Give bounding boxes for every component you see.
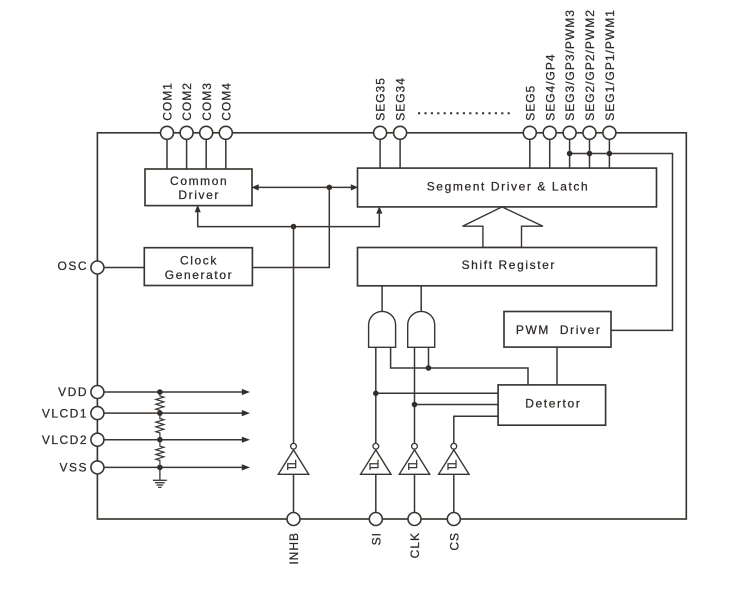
svg-text:COM1: COM1 — [161, 82, 175, 121]
svg-text:CLK: CLK — [408, 532, 422, 558]
pin SEG1/GP1/PWM1 — [603, 9, 617, 139]
pin SEG35 — [374, 77, 388, 139]
wire: SI branch to Detertor — [376, 392, 498, 394]
wire: CLK branch to Detertor — [415, 404, 499, 406]
wire: INHB buffer output up to control bus — [293, 227, 295, 444]
svg-text:SEG35: SEG35 — [374, 77, 388, 121]
AND gate G2 — [408, 311, 435, 347]
svg-text:INHB: INHB — [287, 532, 301, 565]
big block arrow from Shift Register to Segment Driver & Latch — [463, 207, 544, 248]
junction: resistor chain at VLCD1 — [157, 410, 163, 416]
wire: Shift Register to AND gate G1 — [381, 286, 383, 312]
wire: OSC pin to Clock Generator — [97, 267, 144, 269]
svg-text:VDD: VDD — [58, 385, 88, 399]
svg-text:CS: CS — [447, 532, 461, 551]
svg-text:PWM Driver: PWM Driver — [516, 323, 602, 337]
dotted line for omitted SEG pins — [418, 112, 514, 114]
AND gate G1 — [369, 311, 396, 347]
wire: CLK buffer to CLK pin — [414, 474, 416, 519]
wire: INHB buffer to INHB pin — [293, 474, 295, 519]
pin SI — [369, 513, 383, 546]
wire: Detertor output to AND gate right inputs — [391, 347, 528, 385]
pin SEG4/GP4 — [543, 53, 557, 139]
svg-text:Clock: Clock — [180, 254, 218, 268]
pin COM4 — [219, 82, 233, 139]
pin COM1 — [161, 82, 175, 139]
pin VDD — [58, 385, 104, 399]
pin SEG3/GP3/PWM3 — [563, 9, 577, 139]
svg-text:SI: SI — [369, 532, 383, 545]
wire: gate G2 right input — [428, 347, 430, 368]
wire: SEG34 pin to Segment Driver — [399, 135, 401, 168]
pin VSS — [59, 461, 103, 475]
wire: bidirectional bus between Common Driver and Segment Driver & Latch — [251, 184, 358, 190]
wire: COM4 pin to Common Driver — [225, 135, 227, 169]
pin SEG5 — [523, 85, 537, 140]
wire: SEG4 pin to Segment Driver — [549, 135, 551, 168]
svg-text:SEG34: SEG34 — [394, 77, 408, 121]
junction: SI branch — [373, 391, 379, 397]
junction: clock line joins bidirectional bus — [327, 185, 333, 191]
svg-text:SEG2/GP2/PWM2: SEG2/GP2/PWM2 — [583, 9, 597, 121]
svg-text:SEG1/GP1/PWM1: SEG1/GP1/PWM1 — [603, 9, 617, 121]
wire: COM1 pin to Common Driver — [166, 135, 168, 169]
junction: PWM feedback at SEG2 — [587, 151, 593, 157]
pin OSC — [57, 259, 103, 274]
svg-text:COM2: COM2 — [180, 82, 194, 121]
pin SEG34 — [394, 77, 408, 139]
svg-text:Common: Common — [170, 174, 228, 188]
pin COM3 — [200, 82, 214, 139]
wire: SEG5 pin to Segment Driver — [529, 135, 531, 168]
svg-text:OSC: OSC — [57, 259, 88, 273]
wire: COM2 pin to Common Driver — [186, 135, 188, 169]
buffer U3 (CLK Schmitt trigger) — [399, 443, 429, 474]
junction: PWM feedback at SEG3 — [567, 151, 573, 157]
svg-text:COM4: COM4 — [219, 82, 233, 121]
svg-text:COM3: COM3 — [200, 82, 214, 121]
buffer U1 (INHB Schmitt trigger) — [278, 443, 308, 474]
wire: VSS supply line with arrow — [97, 464, 250, 470]
wire: PWM feedback line to SEG1-SEG3 pins — [570, 154, 673, 331]
pin CLK — [408, 513, 422, 559]
wire: SEG3 pin to Segment Driver — [569, 135, 571, 168]
resistor R3 between VLCD2 and VSS — [156, 440, 164, 468]
junction: resistor chain at VDD — [157, 389, 163, 395]
wire: VDD supply line with arrow — [97, 389, 250, 395]
block: Segment Driver & Latch — [358, 168, 657, 207]
resistor R1 between VDD and VLCD1 — [156, 392, 164, 413]
svg-text:Detertor: Detertor — [525, 397, 581, 411]
wire: Clock Generator output to bus — [252, 187, 329, 267]
svg-text:Segment Driver & Latch: Segment Driver & Latch — [427, 179, 590, 193]
junction: resistor chain at VSS — [157, 465, 163, 471]
junction: gate G2 right input on detertor line — [426, 365, 432, 371]
svg-text:VLCD2: VLCD2 — [42, 433, 88, 447]
wire: VLCD1 supply line with arrow — [97, 410, 250, 416]
pin INHB — [287, 513, 301, 565]
junction: CLK branch — [412, 402, 418, 408]
block: Common Driver — [145, 169, 252, 206]
pin CS — [447, 513, 461, 551]
block: Clock Generator — [144, 248, 252, 286]
svg-text:VSS: VSS — [59, 461, 88, 475]
chip outline border — [97, 133, 686, 519]
pin COM2 — [180, 82, 194, 139]
wire: VLCD2 supply line with arrow — [97, 437, 250, 443]
resistor R2 between VLCD1 and VLCD2 — [156, 413, 164, 440]
junction: PWM feedback at SEG1 — [607, 151, 613, 157]
ground symbol below VSS — [153, 467, 167, 487]
svg-text:Generator: Generator — [165, 268, 233, 282]
pin SEG2/GP2/PWM2 — [583, 9, 597, 139]
buffer U4 (CS Schmitt trigger) — [439, 443, 469, 474]
svg-text:Driver: Driver — [178, 188, 220, 202]
wire: CS buffer to CS pin — [453, 474, 455, 519]
block: PWM Driver — [504, 312, 611, 348]
svg-text:VLCD1: VLCD1 — [42, 406, 88, 420]
wire: CS buffer to Detertor — [454, 416, 498, 443]
svg-text:Shift Register: Shift Register — [462, 258, 556, 272]
wire: SI buffer to SI pin — [375, 474, 377, 519]
wire: SEG2 pin to Segment Driver — [589, 135, 591, 168]
block: Detertor — [498, 385, 605, 425]
svg-text:SEG5: SEG5 — [523, 85, 537, 121]
wire: SEG35 pin to Segment Driver — [379, 135, 381, 168]
pin VLCD2 — [42, 433, 104, 447]
wire: PWM Driver to Detertor — [556, 347, 558, 385]
wire: SI line (buffer output through gate G1 left input) — [375, 347, 377, 443]
svg-text:SEG3/GP3/PWM3: SEG3/GP3/PWM3 — [563, 9, 577, 121]
block: Shift Register — [358, 248, 657, 286]
junction: INHB line joins control bus — [291, 224, 297, 230]
svg-text:SEG4/GP4: SEG4/GP4 — [543, 53, 557, 120]
pin VLCD1 — [42, 406, 104, 420]
buffer U2 (SI Schmitt trigger) — [361, 443, 391, 474]
wire: SEG1 pin to Segment Driver — [608, 135, 610, 168]
junction: resistor chain at VLCD2 — [157, 437, 163, 443]
wire: CLK line (buffer output through gate G2 left input) — [414, 347, 416, 443]
wire: Shift Register to AND gate G2 — [420, 286, 422, 312]
wire: COM3 pin to Common Driver — [205, 135, 207, 169]
wire: control bus from INHB buffer to Common Driver and Segment Driver (y=226.6) — [195, 205, 383, 227]
